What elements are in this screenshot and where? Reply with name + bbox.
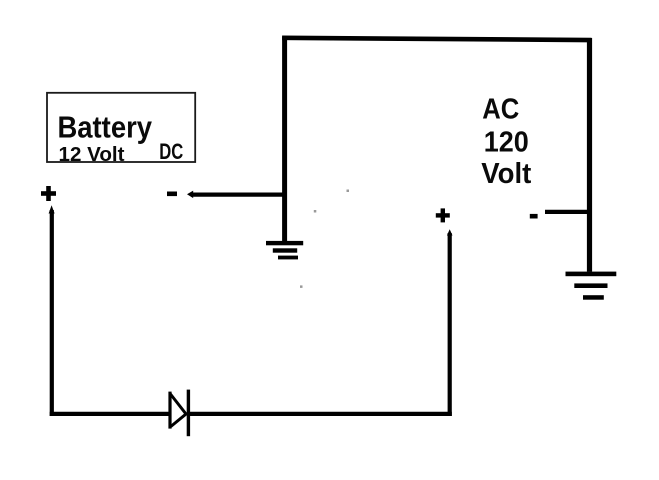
wire: bottom horizontal, battery positive to diode anode (50, 412, 169, 416)
svg-text:Volt: Volt (481, 158, 531, 190)
wire: battery negative terminal to node A, with left arrowhead (187, 191, 287, 199)
ground GND1 (266, 241, 303, 260)
wire: AC positive lead vertical with small up arrowhead (447, 229, 453, 416)
battery negative terminal marker - (167, 192, 177, 197)
diode D1 (170, 390, 188, 437)
svg-text:12 Volt: 12 Volt (59, 143, 125, 166)
AC negative terminal marker - (530, 214, 538, 219)
AC source label "AC 120 Volt" (481, 93, 531, 190)
wire: top horizontal (282, 38, 591, 40)
wire: left vertical leg from top wire down to ground GND1 (node A) (282, 37, 287, 242)
wire: AC negative lead horizontal to right vertical leg (545, 210, 592, 214)
svg-text:AC: AC (482, 93, 519, 125)
svg-text:120: 120 (484, 126, 529, 158)
battery label "Battery" (58, 109, 153, 144)
battery positive terminal marker + (41, 186, 56, 201)
ground GND2 (566, 272, 617, 300)
svg-text:DC: DC (159, 139, 183, 164)
wire: bottom horizontal, diode cathode to AC positive lead (188, 412, 452, 416)
battery value label "12 Volt" (59, 143, 125, 166)
battery value label "DC" (159, 139, 183, 164)
battery B1 body (47, 93, 195, 162)
wire: battery positive lead vertical with small up arrowhead (49, 205, 55, 416)
svg-text:Battery: Battery (58, 109, 153, 144)
AC positive terminal marker + (436, 208, 450, 222)
wire: right vertical leg from top wire down to ground GND2 (587, 38, 592, 272)
